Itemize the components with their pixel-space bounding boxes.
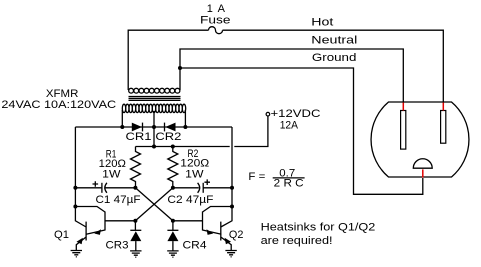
svg-text:24VAC 10A:120VAC: 24VAC 10A:120VAC (1, 99, 116, 111)
svg-text:CR4: CR4 (183, 240, 207, 252)
ground CR3 (130, 251, 141, 257)
wire diode row (75, 126, 232, 128)
wire center tap (153, 111, 155, 147)
svg-text:+12VDC: +12VDC (271, 108, 321, 120)
wire primary right drop (184, 110, 186, 127)
svg-text:CR1: CR1 (126, 131, 152, 143)
capacitor C1 (75, 181, 135, 193)
resistor R2 (168, 147, 178, 188)
svg-text:Q1: Q1 (54, 229, 69, 241)
node Q1 base junction (133, 219, 137, 223)
diode CR4 (167, 221, 178, 251)
svg-text:1W: 1W (102, 168, 121, 180)
transistor Q2 (203, 207, 233, 251)
wire hot line with fuse (128, 30, 443, 102)
node neutral-ground junction (178, 66, 182, 70)
diode CR2 (165, 123, 176, 132)
ground Q2 (225, 251, 236, 257)
wire cross coupling 2 (135, 188, 173, 221)
node winding right (183, 125, 187, 129)
wire right rail (231, 127, 233, 207)
svg-text:Q2: Q2 (229, 229, 244, 241)
wire ground (180, 68, 423, 194)
node center tap +12V (152, 145, 156, 149)
transformer T1 primary winding (122, 104, 185, 112)
svg-text:Neutral: Neutral (311, 35, 357, 47)
svg-text:1W: 1W (185, 168, 204, 180)
outlet hot slot (441, 111, 446, 144)
node R2 top (171, 145, 175, 149)
svg-text:Hot: Hot (311, 17, 333, 29)
red neutral contact (402, 103, 404, 111)
node center tap diode row (152, 125, 156, 129)
svg-text:Ground: Ground (312, 52, 357, 64)
node R2 bottom (171, 186, 175, 190)
wire base Q2 (173, 220, 203, 222)
ground CR4 (167, 251, 178, 257)
node Q2 collector (230, 205, 234, 209)
node C2 right rail (230, 186, 234, 190)
outlet ground hole (413, 159, 432, 168)
svg-text:are required!: are required! (261, 235, 333, 247)
fuse F1 (209, 27, 223, 34)
svg-text:CR3: CR3 (106, 240, 129, 252)
svg-text:Fuse: Fuse (200, 14, 231, 26)
wire neutral (180, 49, 403, 102)
outlet neutral slot (401, 111, 406, 150)
node Q2 base junction (171, 219, 175, 223)
diode CR3 (130, 221, 141, 251)
terminal +12VDC (266, 112, 270, 116)
resistor R1 (131, 147, 141, 188)
transformer T1 core (129, 97, 181, 101)
svg-text:F =: F = (248, 171, 265, 183)
ground Q1 (71, 251, 82, 257)
formula F = 0.7 / 2RC (248, 167, 304, 189)
wire +12V feed (136, 116, 268, 146)
wire base Q1 (105, 220, 135, 222)
red ground contact (422, 169, 424, 177)
svg-text:XFMR: XFMR (46, 88, 79, 100)
wire primary left drop (121, 110, 123, 127)
node Q1 collector (73, 205, 77, 209)
node R1 bottom (133, 186, 137, 190)
transistor Q1 (75, 207, 105, 251)
wire left rail (74, 127, 76, 207)
transformer T1 secondary winding (129, 88, 180, 93)
svg-text:C2 47µF: C2 47µF (167, 194, 213, 206)
svg-text:1: 1 (207, 3, 213, 15)
svg-text:2 R C: 2 R C (274, 178, 304, 190)
capacitor C2 (173, 179, 232, 192)
wire cross coupling 1 (135, 188, 173, 221)
svg-text:C1 47µF: C1 47µF (96, 194, 141, 206)
node C1 left rail (73, 186, 77, 190)
AC outlet body (371, 102, 469, 177)
red hot contact (442, 103, 444, 111)
svg-text:A: A (218, 3, 226, 15)
svg-text:12A: 12A (280, 120, 299, 132)
svg-text:CR2: CR2 (155, 131, 181, 143)
svg-text:Heatsinks for Q1/Q2: Heatsinks for Q1/Q2 (261, 222, 376, 234)
diode CR1 (132, 123, 143, 132)
node winding left (120, 125, 124, 129)
